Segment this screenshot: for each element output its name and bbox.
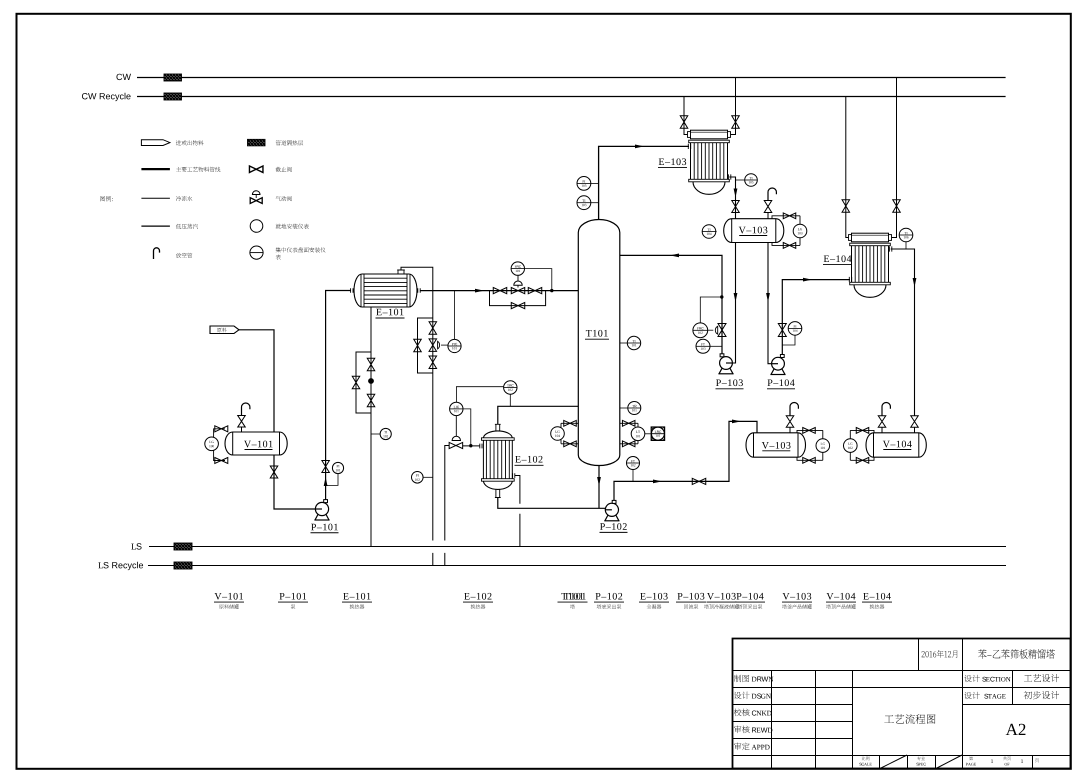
- V-104 gauge valve bottom: [856, 457, 869, 463]
- reboiler E-102: [483, 431, 512, 438]
- title 设计 SECTION: [964, 675, 979, 682]
- pump P-103: [719, 368, 733, 374]
- label V-103 塔釜产品储罐: [783, 593, 812, 600]
- instrument LT-101: [631, 427, 645, 441]
- legend title 图例: [100, 196, 113, 201]
- E-103 outlet flange ticks: [728, 174, 730, 179]
- label E-101 换热器: [343, 593, 370, 600]
- LS Recycle line: [148, 565, 1006, 567]
- label P-101 泵: [280, 593, 307, 600]
- wire arrow to tank: [732, 420, 741, 424]
- instrument TI-103 on riser: [591, 202, 599, 204]
- wire V-101 bottom outlet to P-101: [274, 455, 316, 509]
- instrument TI-105: [736, 179, 745, 181]
- title row 校核 CNKD: [734, 709, 750, 717]
- condensate valve 1: [429, 322, 437, 335]
- feed control valve FRC-101: [511, 288, 525, 294]
- CW header line: [137, 77, 1006, 79]
- condenser E-103: [691, 130, 728, 139]
- title 工艺设计: [1024, 674, 1059, 682]
- wire CW to E-103: [731, 78, 736, 135]
- E-104 outlet flange ticks: [889, 246, 891, 251]
- condensate bypass valve: [414, 339, 422, 352]
- condensate bypass wire: [418, 318, 433, 373]
- instrument PI-104: [782, 335, 795, 345]
- E-103 CW valve left: [680, 116, 688, 129]
- V-103 tank vent hook: [790, 403, 798, 416]
- bottoms arrow: [597, 477, 601, 486]
- V-104 gauge valve top: [856, 428, 869, 434]
- wire P-102 discharge to V-103 tank: [614, 421, 757, 503]
- instrument PI-103 on riser: [591, 182, 599, 184]
- feed control station block valve 1: [493, 288, 507, 294]
- instrument LG-104: [551, 427, 565, 441]
- legend local instrument symbol: [250, 220, 263, 233]
- instrument TRC-102: [509, 394, 511, 406]
- title spec cell 专业 SPEC: [917, 756, 925, 760]
- instrument TI-102: [371, 433, 380, 435]
- wire T101 overhead vapor to E-103: [599, 146, 689, 219]
- main line arrow: [475, 289, 484, 293]
- CW Recycle label: [82, 93, 131, 101]
- LT-101 valve top: [622, 420, 635, 426]
- V-103 drum level gauge wires: [772, 216, 800, 246]
- heat exchanger E-101: [354, 274, 417, 307]
- wire E-104 outlet to V-104: [891, 249, 915, 416]
- P-103 discharge control valve: [718, 324, 726, 337]
- label E-102 换热器: [464, 593, 491, 600]
- vessel V-103 bottoms product tank: [746, 433, 806, 457]
- vessel V-104 overhead product tank: [866, 433, 926, 457]
- column T101: [578, 220, 620, 466]
- instrument LG-100: [205, 437, 219, 451]
- title 设计 STAGE: [964, 692, 979, 699]
- heat exchanger E-104: [852, 233, 889, 242]
- feed station bypass valve: [511, 303, 525, 309]
- wire E-102 vapor return to T101: [498, 406, 579, 424]
- wire feed flag to V-101: [239, 330, 274, 432]
- legend material in/out flag: [141, 140, 170, 146]
- reflux arrow: [670, 254, 679, 258]
- label V-103 塔顶冷凝液储罐: [707, 593, 736, 600]
- title block diagonal spec cell: [935, 755, 962, 769]
- feed flag 原料: [210, 326, 239, 334]
- pump P-102: [605, 514, 619, 520]
- steam bypass wire: [356, 352, 371, 413]
- legend pipe insulation symbol: [248, 139, 266, 146]
- V-103 gauge valve top: [803, 428, 816, 434]
- title page cell 第 PAGE 1 共 OF 1 页: [969, 756, 973, 760]
- V-103 drum vent hook: [768, 188, 776, 201]
- P-104 discharge valve: [778, 324, 786, 337]
- instrument LG-103: [793, 224, 807, 238]
- steam valve 2: [367, 394, 375, 407]
- V-101 vent hook: [242, 403, 250, 415]
- V-104 vent valve: [878, 416, 886, 428]
- wire CW Recycle to E-104: [846, 97, 849, 238]
- LS Recycle label: [98, 562, 143, 570]
- V-101 level gauge valve top: [215, 426, 228, 432]
- CW Recycle line: [137, 96, 1006, 98]
- P-102 discharge valve: [692, 478, 706, 484]
- title row 审核 REWD: [734, 726, 750, 734]
- title scale cell 比例 SCALE: [862, 757, 870, 761]
- legend cooling water line: [141, 197, 170, 199]
- wire V-103 drum to P-103: [732, 243, 735, 364]
- pump P-101: [315, 514, 329, 520]
- instrument TI-101: [620, 342, 628, 344]
- instrument TI-106: [905, 242, 907, 249]
- wire CW to E-104: [892, 78, 897, 238]
- LG-104 valve bottom: [564, 441, 577, 447]
- legend panel instrument symbol: [250, 246, 263, 259]
- LS Recycle insulation symbol: [174, 562, 192, 569]
- E-104 CW valve right: [893, 200, 901, 213]
- instrument FRC-101: [511, 262, 524, 275]
- V-103 gauge valve bottom: [803, 457, 816, 463]
- legend vent pipe symbol: [154, 248, 160, 259]
- drum gauge valve top: [783, 213, 796, 219]
- label V-101 原料储罐: [215, 593, 244, 600]
- title 工艺流程图: [884, 714, 935, 724]
- wire CW Recycle to E-103: [684, 97, 688, 135]
- condensate control valve with actuator: [429, 339, 437, 352]
- vessel V-103 reflux drum: [724, 219, 784, 243]
- pump P-104: [771, 368, 785, 374]
- instrument PIC-101 sensing wire: [454, 291, 456, 340]
- instrument LRC-101 shared display: [645, 433, 651, 435]
- instrument LG-102: [844, 439, 858, 453]
- label P-104 塔顶采出泵: [737, 593, 764, 600]
- vessel V-101: [225, 432, 287, 455]
- E-103 outlet arrow: [734, 189, 738, 198]
- V-101 level gauge wire: [214, 429, 225, 461]
- E-103 CW valve right: [732, 116, 740, 129]
- P-101 discharge valve: [322, 461, 330, 473]
- instrument TI-103 near LS: [423, 476, 433, 478]
- title block diagonal scale cell: [879, 755, 907, 769]
- wire E-102 steam inlet from LS: [515, 476, 520, 547]
- title row 制图 DRWN: [734, 675, 750, 682]
- LG-104 valve top: [564, 420, 577, 426]
- instrument LG-101: [816, 439, 830, 453]
- V-104 vent hook: [882, 403, 890, 416]
- CW insulation symbol: [164, 74, 182, 81]
- title 初步设计: [1024, 691, 1059, 699]
- TRC-102 to LIC-101 signal wire: [456, 387, 503, 403]
- title block grid: [733, 639, 1071, 769]
- E-103 inlet flange ticks: [688, 144, 690, 149]
- title row 审定 APPD: [734, 743, 750, 751]
- FRC-102 signal wire: [700, 297, 722, 323]
- CW Recycle insulation symbol: [164, 93, 182, 100]
- legend stop valve symbol: [249, 166, 263, 173]
- wire E-101 top nozzle to condensate header: [401, 267, 433, 565]
- P-101 discharge arrow: [324, 477, 328, 486]
- V-101 vent valve: [238, 416, 246, 428]
- FRC-101 signal wire: [525, 269, 552, 291]
- E-104 CW valve left: [842, 200, 850, 213]
- drum gauge valve bottom: [783, 243, 796, 249]
- wire T101 bottoms outlet: [598, 465, 600, 508]
- label P-103 回流泵: [678, 593, 705, 600]
- wire V-103 drum to P-104: [768, 243, 772, 364]
- wire E-101 outlet main line to T101: [420, 290, 578, 292]
- LS header line: [149, 546, 1006, 548]
- E-104 inlet flange ticks: [849, 277, 851, 282]
- wire P-103 reflux to T101: [620, 255, 722, 357]
- instrument TI-104 drum: [715, 231, 718, 233]
- wire E-102 bottoms to P-102: [498, 498, 606, 509]
- overhead line arrow: [635, 145, 644, 149]
- LT-101 valve bottom: [622, 441, 635, 447]
- legend main process line: [141, 168, 170, 170]
- label V-104 塔顶产品储罐: [827, 593, 856, 600]
- label T101 塔: [561, 593, 583, 600]
- legend LP steam line: [141, 225, 170, 227]
- wire E-101 bottom nozzle steam line: [370, 307, 372, 547]
- steam trap: [368, 378, 374, 384]
- condensate valve 2: [429, 356, 437, 369]
- V-104 level gauge wires: [850, 430, 874, 460]
- instrument PI-101: [326, 474, 338, 486]
- V-104 inlet valve: [911, 416, 919, 428]
- instrument FT-103: [710, 345, 722, 347]
- title row 设计 DSGN: [734, 692, 750, 699]
- label E-104 换热器: [863, 593, 891, 600]
- feed control station block valve 2: [528, 288, 542, 294]
- instrument PIC-101: [448, 339, 461, 352]
- E-103 outlet valve: [732, 201, 740, 213]
- title date 2016年12月: [922, 650, 958, 658]
- label E-103 全凝器: [640, 593, 667, 600]
- instrument TR-101: [620, 407, 628, 409]
- steam valve 1: [367, 358, 375, 371]
- label P-102 塔底采出泵: [596, 593, 623, 600]
- V-103 tank vent valve: [786, 416, 794, 428]
- feed station bypass wire: [490, 291, 546, 306]
- wire E-103 outlet to V-103 drum: [729, 177, 735, 219]
- LS header label: [131, 543, 141, 549]
- V-101 outlet valve: [270, 466, 278, 478]
- V-101 level gauge valve bottom: [215, 458, 228, 464]
- wire E-102 condensate to LS Recycle: [445, 446, 480, 566]
- instrument FRC-102: [693, 323, 708, 338]
- steam bypass valve: [352, 376, 360, 389]
- V-103 tank level gauge wires: [797, 430, 823, 460]
- V-103 drum vent valve: [764, 201, 772, 213]
- title A2: [1006, 724, 1026, 735]
- LS insulation symbol: [174, 543, 192, 550]
- LIC sensing wire: [463, 409, 471, 446]
- instrument LIC-101: [450, 402, 463, 415]
- legend pneumatic valve symbol: [250, 198, 262, 204]
- T101 level gauge LG-104 wires: [561, 423, 578, 444]
- title 苯-乙苯筛板精馏塔: [978, 649, 1055, 659]
- wire P-104 discharge to E-104: [782, 280, 850, 358]
- P-102 discharge arrow: [653, 480, 662, 484]
- T101 level transmitter wires: [620, 423, 638, 444]
- wire P-101 discharge to E-101: [326, 291, 351, 502]
- CW header label: [116, 74, 131, 80]
- instrument FT-102: [632, 470, 634, 482]
- E-102 condensate control valve: [455, 416, 457, 436]
